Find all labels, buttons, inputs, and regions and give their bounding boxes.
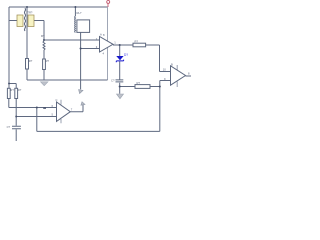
svg-text:R?: R? [10, 88, 14, 92]
svg-text:R?: R? [18, 88, 22, 92]
svg-text:C: C [56, 98, 58, 102]
op-amp U3 [57, 102, 71, 121]
svg-text:8: 8 [188, 71, 190, 75]
wire top rail [9, 6, 108, 8]
resistor R5 box [135, 85, 150, 89]
wire relay pin down through pin3 node [80, 33, 82, 90]
svg-text:5: 5 [52, 112, 54, 116]
wire op-amp U3 power stubs [60, 100, 62, 124]
wire vertical to op-amp U2 pin10 [160, 45, 171, 72]
wire op-amp U2 power stubs [176, 65, 178, 87]
wire op-amp U3 output riser [70, 105, 83, 112]
svg-text:D?: D? [124, 53, 128, 57]
svg-text:C?: C? [111, 78, 115, 82]
wire left rail [8, 7, 10, 88]
op-amp U1 [100, 37, 114, 53]
wire transformer center tap down [26, 7, 28, 59]
terminal pennant 1 [79, 90, 83, 94]
wire mid rail y80 [27, 79, 108, 81]
wire relay coil drop [74, 7, 76, 16]
svg-text:R?: R? [137, 81, 141, 85]
terminal pennant 2 [81, 102, 85, 105]
wire input rail 1 [9, 99, 57, 108]
wire node A to op-amp U1 pin2 [44, 39, 100, 41]
svg-text:10: 10 [163, 68, 166, 72]
wire node down from wire1 [36, 108, 38, 132]
resistor R4 box [133, 43, 146, 47]
wire R6 top link to left rail [9, 84, 16, 89]
resistor R7 box [15, 88, 18, 98]
op-amp U2 [171, 66, 186, 85]
wire op-amp U2 pin9 feed [160, 80, 171, 82]
svg-text:8: 8 [103, 33, 105, 37]
wire V+ drop to op-amp U1 power [107, 7, 109, 80]
wire feedback vertical B [159, 81, 161, 132]
transformer TR1 left box [17, 15, 23, 27]
svg-text:C?: C? [7, 125, 11, 129]
ground arrow below C1 [117, 94, 124, 99]
svg-text:4: 4 [103, 51, 105, 55]
resistor R1 box [26, 59, 29, 70]
resistor R3 zigzag [43, 41, 45, 50]
svg-text:A: A [100, 33, 102, 37]
svg-text:R?: R? [29, 59, 33, 63]
wire input rail 2 [16, 99, 56, 117]
wire bottom feedback run [37, 130, 160, 132]
wire R1 bottom to mid rail [26, 69, 28, 80]
wire zener branch [119, 45, 121, 94]
svg-text:R?: R? [41, 34, 45, 38]
capacitor C2 plates [12, 126, 21, 129]
zener diode D1 [116, 56, 123, 62]
wire R2 bottom to mid rail [43, 70, 45, 81]
ground arrow node A [41, 82, 49, 86]
svg-text:B: B [171, 63, 173, 67]
svg-text:R?: R? [135, 39, 139, 43]
wire op-amp U1 output to R4 to corner [113, 44, 160, 46]
svg-text:7: 7 [71, 107, 73, 111]
transformer TR1 right box [28, 15, 34, 27]
svg-text:R?: R? [46, 59, 50, 63]
wire pin3 feed to op-amp U1 [81, 48, 100, 50]
wire op-amp U2 output [186, 75, 192, 77]
relay RL1 box [77, 20, 90, 33]
power port red circle [107, 0, 110, 7]
wire transformer right pin [34, 21, 44, 41]
relay RL1 coil squiggle [74, 16, 77, 32]
junction dots [8, 6, 161, 118]
capacitor C1 plates [116, 80, 124, 82]
wire C2 branch to bottom edge [15, 117, 17, 142]
transformer TR1 winding squiggle [24, 8, 25, 31]
svg-text:TR?: TR? [27, 10, 33, 14]
svg-text:1: 1 [114, 41, 116, 45]
wire transformer left pin [9, 20, 17, 22]
wire R5 run to vertical B [120, 86, 160, 88]
resistor R2 box [43, 59, 46, 70]
resistor R6 box [7, 88, 10, 98]
svg-text:RL?: RL? [77, 11, 82, 15]
wire R3 to R2 link [43, 50, 45, 59]
